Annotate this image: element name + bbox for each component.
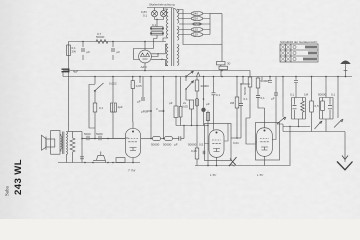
svg-text:Skalenbeleuchtung: Skalenbeleuchtung bbox=[149, 3, 175, 7]
svg-text:0,01: 0,01 bbox=[233, 141, 239, 145]
svg-text:µF: µF bbox=[174, 143, 178, 147]
svg-text:µF: µF bbox=[271, 97, 275, 101]
capacitor C11 2x0.05 bbox=[182, 100, 194, 126]
switch S3 between tubes bbox=[229, 157, 237, 167]
svg-text:50000: 50000 bbox=[151, 143, 160, 147]
legend box bbox=[280, 40, 318, 62]
svg-text:5000: 5000 bbox=[84, 132, 91, 136]
svg-text:2W: 2W bbox=[72, 50, 77, 54]
transformer Tr2 output bbox=[61, 132, 69, 163]
capacitor C6 x113 bbox=[111, 77, 123, 139]
svg-text:50000: 50000 bbox=[243, 86, 247, 95]
wire fuse to heater bbox=[154, 39, 158, 49]
fuse Si2 bbox=[150, 32, 163, 39]
svg-text:30: 30 bbox=[227, 62, 231, 66]
wire x82 drop bbox=[81, 132, 83, 163]
svg-text:220: 220 bbox=[193, 17, 198, 21]
wire x276 anode B up bbox=[275, 95, 277, 123]
wire y131 link bbox=[69, 131, 83, 133]
wire x283 drop from bus bbox=[282, 77, 284, 98]
tube T AF7 bbox=[125, 122, 141, 163]
switch S2b below rail B bbox=[185, 77, 193, 100]
resistor chain right of tube T bbox=[141, 136, 184, 146]
switch S4 right bbox=[334, 77, 343, 132]
wire x311.5 drop bbox=[310, 77, 319, 132]
node dots grid line bbox=[82, 41, 114, 43]
svg-text:240: 240 bbox=[193, 12, 198, 16]
svg-text:0,1: 0,1 bbox=[290, 93, 295, 97]
capacitor C3 on x82 drop bbox=[80, 157, 84, 159]
svg-text:0,1: 0,1 bbox=[261, 96, 266, 100]
svg-text:150: 150 bbox=[195, 22, 200, 26]
node dots on rail B bbox=[94, 76, 346, 78]
svg-text:µF: µF bbox=[87, 50, 91, 54]
speaker frame bbox=[51, 131, 60, 155]
wire rail A y70.2 bbox=[63, 70, 250, 72]
svg-text:µF: µF bbox=[169, 101, 173, 105]
node dots on rail A bbox=[68, 70, 223, 72]
svg-text:50000: 50000 bbox=[188, 143, 197, 147]
svg-text:0,5: 0,5 bbox=[199, 143, 204, 147]
svg-text:0,1: 0,1 bbox=[331, 93, 336, 97]
svg-text:Saba: Saba bbox=[6, 186, 11, 197]
resistor R4 50k on grid line bbox=[96, 32, 108, 44]
svg-text:0,25: 0,25 bbox=[191, 149, 197, 153]
switch S1 tone bbox=[94, 77, 103, 92]
capacitor C1 block on bus left end bbox=[62, 69, 79, 76]
wire left vertical x68.5 bbox=[68, 42, 70, 132]
capacitor C4 coupling bbox=[82, 132, 93, 140]
wire lower-left rail y162 bbox=[58, 162, 140, 164]
tube A AL5 bbox=[205, 124, 232, 166]
capacitor C10 x176 bbox=[169, 77, 178, 126]
wire y126 line bbox=[283, 126, 310, 128]
capacitor C9 x113 top bbox=[111, 42, 120, 61]
wire right collect y131 bbox=[283, 131, 345, 133]
svg-text:5000: 5000 bbox=[96, 132, 103, 136]
node junction x108 bbox=[107, 138, 109, 140]
speaker LS bbox=[42, 135, 55, 150]
capacitor stub x270 bbox=[269, 77, 271, 80]
wire af line y138.5 bbox=[82, 138, 125, 140]
wire rectifier cathode to rail A bbox=[144, 63, 146, 71]
svg-text:0,022: 0,022 bbox=[109, 82, 117, 86]
resistor R7 to grid bias bbox=[191, 91, 199, 166]
resistor R field coil bbox=[70, 132, 75, 163]
capacitor C8 x83 top bbox=[81, 42, 90, 61]
fuse Si1 bbox=[150, 23, 163, 30]
resistor R8 x258 bbox=[256, 77, 269, 96]
svg-text:0,1: 0,1 bbox=[244, 97, 249, 101]
wire lamp join bbox=[155, 20, 164, 25]
lamp La1 bbox=[151, 8, 157, 20]
resistor R5 box top right bbox=[217, 14, 231, 77]
capacitor C16 x258 bbox=[256, 96, 265, 109]
antenna bbox=[340, 61, 350, 77]
resistor R6 20k bbox=[195, 77, 209, 92]
RC bridge 1 bbox=[290, 93, 309, 127]
svg-text:110: 110 bbox=[193, 33, 198, 37]
svg-text:0,1: 0,1 bbox=[143, 14, 148, 18]
tube B AL5 bbox=[256, 108, 280, 166]
capacitor C18 x180.6 bbox=[179, 77, 182, 126]
svg-text:T 7W: T 7W bbox=[128, 169, 136, 173]
svg-text:AZ 1: AZ 1 bbox=[140, 65, 148, 69]
svg-text:50000: 50000 bbox=[163, 143, 172, 147]
wire x237 drop bbox=[230, 77, 239, 139]
svg-text:50000: 50000 bbox=[318, 93, 327, 97]
svg-text:0,05: 0,05 bbox=[182, 105, 188, 109]
RC bridge 2 bbox=[318, 93, 336, 132]
svg-text:µF00: µF00 bbox=[141, 110, 148, 114]
wire rail B y76.5 bbox=[63, 76, 352, 78]
svg-text:L 5V: L 5V bbox=[257, 173, 264, 177]
wire x250 drop from rail A end bbox=[249, 71, 251, 78]
ground bottom right bbox=[337, 132, 353, 170]
capacitor C5 coupling bbox=[93, 132, 106, 140]
svg-text:20000: 20000 bbox=[201, 84, 210, 88]
capacitor C13 x213.5 bbox=[212, 77, 221, 124]
resistor R3 on rail bbox=[112, 158, 129, 163]
potentiometer P2 arrow bbox=[315, 121, 322, 129]
wire rail up x290 bbox=[289, 127, 291, 161]
capacitor C12 electrolytic bbox=[201, 77, 209, 126]
svg-text:0,1: 0,1 bbox=[99, 106, 104, 110]
potentiometer P1 arrow bbox=[277, 117, 286, 132]
svg-text:0,05: 0,05 bbox=[136, 84, 142, 88]
wire stub x140 bbox=[139, 77, 141, 84]
capacitor grid bars left of box A bbox=[203, 151, 205, 154]
svg-text:125: 125 bbox=[193, 28, 198, 32]
svg-text:1M: 1M bbox=[304, 93, 309, 97]
svg-text:0,1: 0,1 bbox=[152, 23, 157, 27]
svg-text:µF: µF bbox=[137, 100, 141, 104]
wire af to tube grid bbox=[106, 138, 125, 140]
wire x176 to y125 joins bbox=[176, 126, 208, 139]
capacitor C17 x143 bbox=[137, 77, 145, 104]
svg-text:µF: µF bbox=[206, 102, 210, 106]
resistor R2 bbox=[93, 92, 103, 139]
potentiometer hum trapezoid bbox=[93, 152, 105, 163]
wire grid line y41.5 bbox=[69, 41, 167, 43]
wire stub x262 bbox=[261, 77, 263, 81]
wire vertical x163.5 bbox=[156, 77, 164, 140]
switch S2 mains between rails bbox=[185, 71, 200, 77]
svg-text:µ: µ bbox=[156, 107, 158, 111]
wire x243 from bus bbox=[242, 77, 244, 85]
wire x326 from bus bbox=[325, 77, 327, 94]
svg-text:4µF: 4µF bbox=[73, 70, 78, 74]
wire HV loop bbox=[171, 8, 222, 45]
wire vertical x151 bbox=[141, 77, 152, 140]
rectifier tube AZ1 bbox=[134, 41, 166, 63]
wire x246 to tube B grid bbox=[246, 118, 256, 144]
wire lamp rail y7.5 bbox=[147, 7, 171, 9]
transformer Tr1 mains bbox=[163, 8, 179, 66]
capacitor C15 x276 bbox=[271, 77, 278, 101]
svg-text:L 5V: L 5V bbox=[210, 173, 217, 177]
svg-text:1µF: 1µF bbox=[118, 105, 123, 109]
wire lower mid rail y165.5 bbox=[195, 160, 290, 166]
node dots lower rail bbox=[84, 162, 114, 164]
svg-text:0,1: 0,1 bbox=[216, 93, 221, 97]
wire x208 vertical bbox=[207, 111, 209, 166]
wire tubeA pin dot bbox=[216, 165, 218, 167]
svg-text:0,5: 0,5 bbox=[315, 104, 320, 108]
svg-text:µF: µF bbox=[117, 50, 121, 54]
wire bracket x88 bbox=[89, 85, 95, 129]
lamp La2 bbox=[160, 8, 166, 20]
capacitor C14 x241 bbox=[239, 84, 248, 138]
wire grid couple y138 bbox=[231, 137, 241, 139]
capacitor C2 small at x68 top bbox=[67, 45, 77, 56]
resistor R9 grid leak x132.8 bbox=[109, 77, 142, 123]
selector taps bbox=[179, 12, 222, 37]
svg-text:Schaltbild der Geräteanschl.: Schaltbild der Geräteanschl. bbox=[280, 40, 318, 44]
svg-text:0,7: 0,7 bbox=[97, 32, 102, 36]
svg-text:243 WL: 243 WL bbox=[13, 159, 24, 195]
svg-text:2M: 2M bbox=[230, 101, 235, 105]
capacitor stub x296 bbox=[295, 77, 297, 80]
